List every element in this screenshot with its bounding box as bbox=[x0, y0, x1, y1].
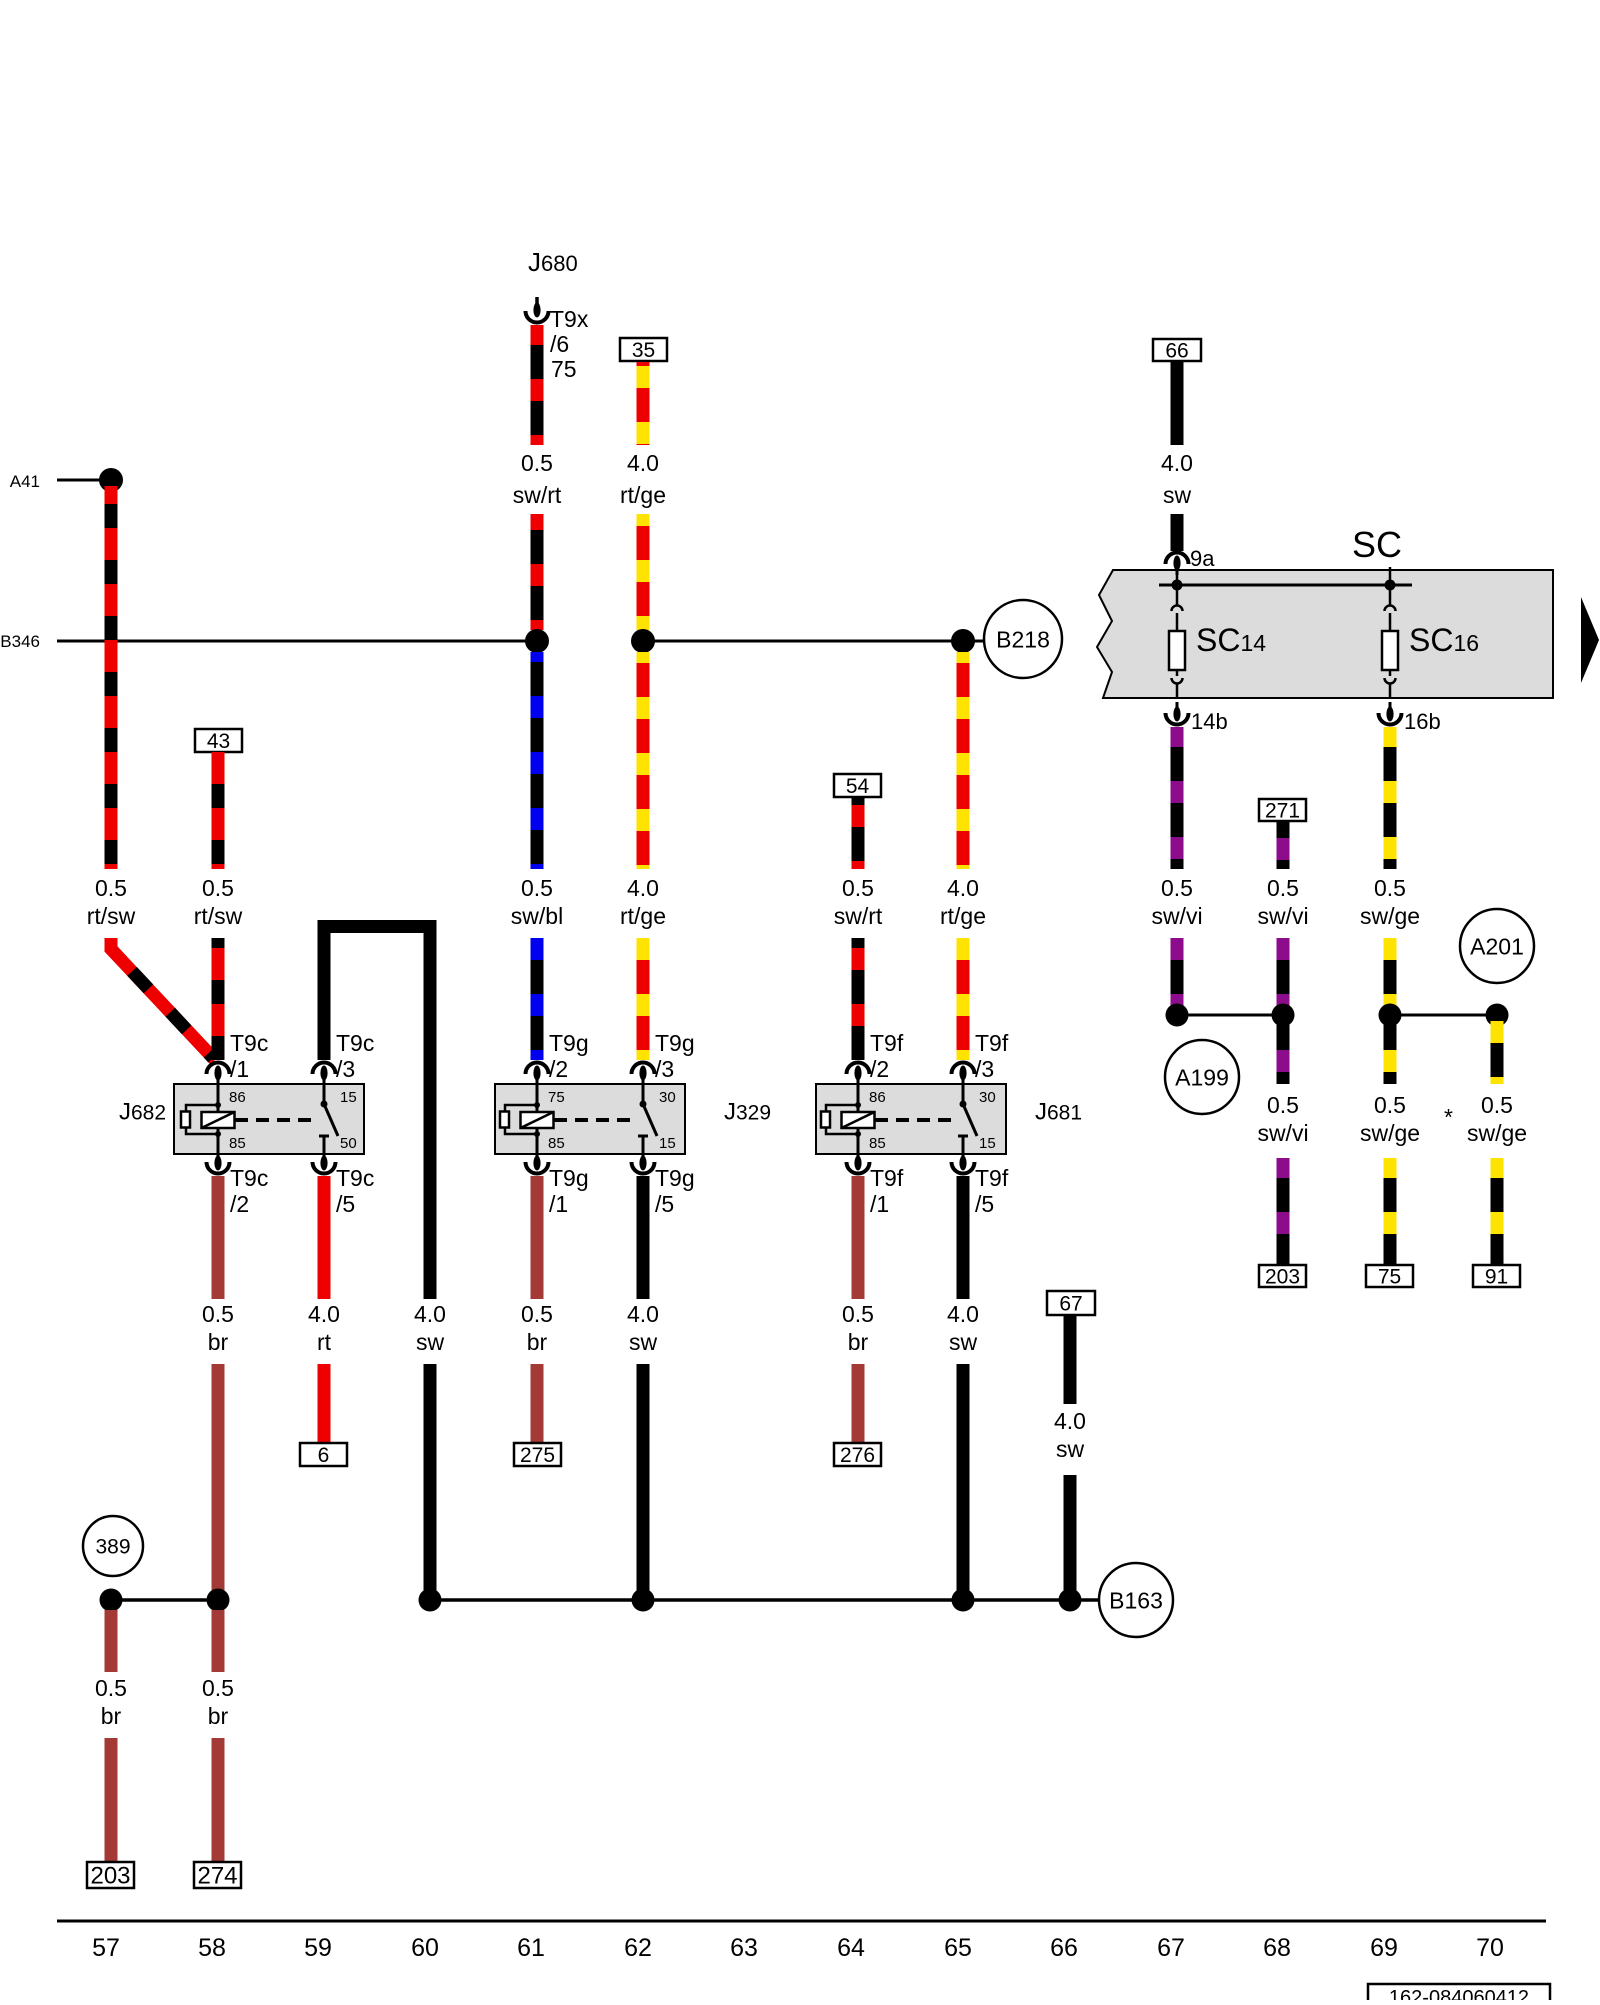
wire 0.5 br below junction58 bbox=[212, 1610, 225, 1672]
svg-text:203: 203 bbox=[1265, 1266, 1300, 1289]
connector T9g/5 bbox=[632, 1151, 695, 1217]
wire 0.5 br below junction57 bbox=[105, 1610, 118, 1672]
svg-text:0.5: 0.5 bbox=[1267, 875, 1299, 901]
ground circle B163 bbox=[1099, 1563, 1173, 1637]
svg-text:*: * bbox=[1444, 1104, 1453, 1130]
connector T9g/2 bbox=[526, 1030, 589, 1085]
label 0.5 sw/ge track69 bbox=[1360, 875, 1420, 929]
label 4.0 rt bbox=[308, 1301, 340, 1355]
svg-text:69: 69 bbox=[1370, 1934, 1398, 1962]
wire 4.0 sw track66 to ground bus bbox=[1064, 1475, 1077, 1600]
label 4.0 sw track60 bbox=[414, 1301, 446, 1355]
wire 0.5 br below T9c/2 bbox=[212, 1176, 225, 1299]
wire junction bus 67-68 bbox=[1177, 1014, 1283, 1017]
wire ground bus bbox=[430, 1598, 1099, 1602]
svg-text:/3: /3 bbox=[336, 1056, 355, 1082]
svg-text:30: 30 bbox=[659, 1089, 676, 1106]
junction track60 ground bbox=[419, 1589, 442, 1612]
svg-text:271: 271 bbox=[1265, 800, 1300, 823]
svg-text:50: 50 bbox=[340, 1135, 357, 1152]
svg-text:sw: sw bbox=[949, 1329, 978, 1355]
svg-text:T9f: T9f bbox=[870, 1165, 904, 1191]
wire 0.5 br below T9g/1 bbox=[531, 1176, 544, 1299]
terminal box 43 bbox=[195, 729, 242, 753]
terminal box 66 bbox=[1153, 339, 1201, 363]
svg-text:35: 35 bbox=[632, 339, 655, 362]
label 4.0 sw track66 bbox=[1054, 1408, 1086, 1462]
wire sw/ge to box 75 bbox=[1384, 1158, 1397, 1265]
svg-text:T9f: T9f bbox=[870, 1030, 904, 1056]
wire 0.5 sw/rt below 54 bbox=[852, 797, 865, 869]
svg-text:br: br bbox=[208, 1329, 229, 1355]
connector T9c/3 bbox=[313, 1030, 375, 1085]
svg-text:B346: B346 bbox=[0, 632, 40, 651]
node A41 bbox=[10, 468, 123, 492]
wire B218 horizontal bbox=[643, 640, 984, 643]
wire 0.5 br track58 to ground bus bbox=[212, 1364, 225, 1600]
SC bus junction 14 bbox=[1172, 580, 1183, 591]
svg-text:sw: sw bbox=[629, 1329, 658, 1355]
svg-text:sw: sw bbox=[1163, 482, 1192, 508]
svg-text:57: 57 bbox=[92, 1934, 120, 1962]
svg-text:/2: /2 bbox=[870, 1056, 889, 1082]
terminal box 35 bbox=[620, 338, 667, 362]
svg-text:67: 67 bbox=[1059, 1293, 1082, 1316]
svg-text:B218: B218 bbox=[996, 626, 1050, 652]
wire 4.0 sw below T9f/5 bbox=[957, 1176, 970, 1299]
svg-text:rt: rt bbox=[317, 1329, 332, 1355]
svg-text:sw: sw bbox=[1056, 1436, 1085, 1462]
svg-text:4.0: 4.0 bbox=[627, 875, 659, 901]
wire sw/rt to T9f/2 bbox=[852, 938, 865, 1060]
svg-text:sw/vi: sw/vi bbox=[1151, 903, 1202, 929]
svg-text:4.0: 4.0 bbox=[947, 875, 979, 901]
connector T9c/2 bbox=[207, 1151, 269, 1217]
svg-text:54: 54 bbox=[846, 775, 870, 798]
label 0.5 sw/bl bbox=[511, 875, 563, 929]
wire 0.5 br to box 274 bbox=[212, 1738, 225, 1862]
svg-text:rt/ge: rt/ge bbox=[620, 482, 666, 508]
connection circle A201 bbox=[1460, 909, 1534, 983]
svg-text:16b: 16b bbox=[1404, 709, 1441, 734]
svg-text:T9f: T9f bbox=[975, 1030, 1009, 1056]
wire 0.5 sw/vi below 271 bbox=[1277, 821, 1290, 869]
svg-text:85: 85 bbox=[869, 1135, 886, 1152]
wire 4.0 rt/ge below junction65 bbox=[957, 652, 970, 869]
terminal box 54 bbox=[834, 774, 881, 798]
svg-text:86: 86 bbox=[229, 1089, 246, 1106]
svg-text:4.0: 4.0 bbox=[1161, 450, 1193, 476]
svg-text:58: 58 bbox=[198, 1934, 226, 1962]
terminal box 271 bbox=[1259, 799, 1306, 823]
junction track57 ground bbox=[100, 1589, 123, 1612]
wire B346 horizontal bbox=[57, 640, 537, 643]
connector T9f/3 bbox=[952, 1030, 1009, 1085]
svg-text:0.5: 0.5 bbox=[95, 1675, 127, 1701]
drawing number box 162-084060412 bbox=[1368, 1984, 1550, 2005]
svg-text:68: 68 bbox=[1263, 1934, 1291, 1962]
junction track66 ground bbox=[1059, 1589, 1082, 1612]
svg-text:0.5: 0.5 bbox=[202, 875, 234, 901]
svg-text:B163: B163 bbox=[1109, 1587, 1163, 1613]
svg-text:rt/sw: rt/sw bbox=[194, 903, 243, 929]
svg-text:6: 6 bbox=[318, 1444, 330, 1467]
svg-text:T9g: T9g bbox=[655, 1165, 695, 1191]
junction track67 bbox=[1166, 1004, 1189, 1027]
svg-text:61: 61 bbox=[517, 1934, 545, 1962]
svg-text:0.5: 0.5 bbox=[1481, 1092, 1513, 1118]
svg-text:0.5: 0.5 bbox=[1267, 1092, 1299, 1118]
svg-text:A41: A41 bbox=[10, 472, 40, 491]
connector T9f/1 bbox=[847, 1151, 904, 1217]
svg-text:T9x: T9x bbox=[550, 306, 589, 332]
wire rt/sw to T9c/1 bbox=[212, 938, 225, 1060]
connector T9f/2 bbox=[847, 1030, 904, 1085]
svg-text:/1: /1 bbox=[230, 1056, 249, 1082]
svg-text:/6: /6 bbox=[550, 331, 569, 357]
connector 9a bbox=[1166, 546, 1216, 575]
track numbers 57-70 bbox=[92, 1934, 1504, 1962]
svg-text:rt/ge: rt/ge bbox=[940, 903, 986, 929]
SC internal bus bbox=[1159, 584, 1412, 587]
svg-text:75: 75 bbox=[1378, 1266, 1401, 1289]
wire 0.5 br to box 275 bbox=[531, 1364, 544, 1443]
terminal box 67 bbox=[1047, 1291, 1095, 1316]
svg-text:SC: SC bbox=[1352, 524, 1402, 565]
ground circle 389 bbox=[83, 1516, 143, 1576]
svg-text:70: 70 bbox=[1476, 1934, 1504, 1962]
svg-text:0.5: 0.5 bbox=[1374, 875, 1406, 901]
label 0.5 br bottom57 bbox=[95, 1675, 127, 1729]
wire 0.5 br to box 203 left bbox=[105, 1738, 118, 1862]
svg-text:0.5: 0.5 bbox=[521, 1301, 553, 1327]
node B346 bbox=[0, 632, 40, 651]
svg-text:T9g: T9g bbox=[655, 1030, 695, 1056]
svg-text:sw/ge: sw/ge bbox=[1467, 1120, 1527, 1146]
wire 4.0 sw below 67 bbox=[1064, 1315, 1077, 1404]
track scale rule bbox=[57, 1920, 1546, 1923]
svg-text:0.5: 0.5 bbox=[521, 875, 553, 901]
svg-text:T9c: T9c bbox=[336, 1165, 374, 1191]
wire sw/bl to T9g/2 bbox=[531, 938, 544, 1060]
svg-text:sw/ge: sw/ge bbox=[1360, 903, 1420, 929]
svg-text:59: 59 bbox=[304, 1934, 332, 1962]
svg-text:75: 75 bbox=[548, 1089, 565, 1106]
wire 4.0 sw below T9g/5 bbox=[637, 1176, 650, 1299]
wire 0.5 br to box 276 bbox=[852, 1364, 865, 1443]
label 0.5 rt/sw track57 bbox=[87, 875, 136, 929]
svg-text:15: 15 bbox=[979, 1135, 996, 1152]
junction track65 ground bbox=[952, 1589, 975, 1612]
label 0.5 sw/vi track68 bbox=[1257, 875, 1308, 929]
svg-text:0.5: 0.5 bbox=[842, 875, 874, 901]
label 0.5 sw/ge lower70 bbox=[1467, 1092, 1527, 1146]
svg-text:75: 75 bbox=[551, 356, 577, 382]
svg-text:rt/ge: rt/ge bbox=[620, 903, 666, 929]
svg-text:65: 65 bbox=[944, 1934, 972, 1962]
svg-text:0.5: 0.5 bbox=[202, 1301, 234, 1327]
svg-text:sw/rt: sw/rt bbox=[513, 482, 562, 508]
svg-text:66: 66 bbox=[1050, 1934, 1078, 1962]
relay J329 bbox=[495, 1084, 771, 1154]
terminal box 91 bbox=[1473, 1265, 1520, 1289]
wire 4.0 sw track65 to ground bus bbox=[957, 1364, 970, 1600]
svg-text:T9g: T9g bbox=[549, 1165, 589, 1191]
wire 4.0 sw below 66 bbox=[1171, 361, 1184, 445]
relay J682 bbox=[119, 1084, 364, 1154]
connector T9c/1 bbox=[207, 1030, 269, 1085]
wire 0.5 br below T9f/1 bbox=[852, 1176, 865, 1299]
wire sw/vi to junction bbox=[1171, 938, 1184, 1015]
connector T9g/3 bbox=[632, 1030, 695, 1085]
relay contact J680 label bbox=[528, 247, 578, 277]
svg-text:T9c: T9c bbox=[336, 1030, 374, 1056]
connector T9f/5 bbox=[952, 1151, 1009, 1217]
label 0.5 br track61 bbox=[521, 1301, 553, 1355]
SC bus junction 16 bbox=[1385, 580, 1396, 591]
svg-text:4.0: 4.0 bbox=[627, 1301, 659, 1327]
svg-text:0.5: 0.5 bbox=[521, 450, 553, 476]
label 0.5 sw/rt bbox=[513, 450, 562, 508]
fuse SC14 bbox=[1169, 567, 1266, 698]
label 0.5 sw/rt track64 bbox=[834, 875, 883, 929]
junction track68 bbox=[1272, 1004, 1295, 1027]
svg-text:63: 63 bbox=[730, 1934, 758, 1962]
svg-text:276: 276 bbox=[840, 1444, 875, 1467]
svg-text:0.5: 0.5 bbox=[1161, 875, 1193, 901]
svg-text:sw/vi: sw/vi bbox=[1257, 1120, 1308, 1146]
wire 4.0 rt/ge below junction62 bbox=[637, 652, 650, 869]
svg-text:275: 275 bbox=[520, 1444, 555, 1467]
svg-text:389: 389 bbox=[95, 1536, 130, 1559]
terminal box 276 bbox=[834, 1443, 881, 1467]
svg-text:sw/bl: sw/bl bbox=[511, 903, 563, 929]
wire 4.0 sw loop T9c/3 up and over to track60 bbox=[324, 927, 430, 1300]
svg-text:J329: J329 bbox=[724, 1099, 771, 1126]
svg-text:62: 62 bbox=[624, 1934, 652, 1962]
terminal box 203 right bbox=[1259, 1265, 1306, 1289]
svg-text:/5: /5 bbox=[975, 1191, 994, 1217]
label 4.0 rt/ge track65 bbox=[940, 875, 986, 929]
terminal box 75 bbox=[1366, 1265, 1413, 1289]
wire 4.0 rt/ge below 35 bbox=[637, 362, 650, 445]
svg-text:A201: A201 bbox=[1470, 933, 1524, 959]
fuse panel SC box bbox=[1097, 524, 1553, 698]
svg-text:/5: /5 bbox=[336, 1191, 355, 1217]
terminal box 203 left bbox=[87, 1862, 134, 1890]
svg-text:203: 203 bbox=[90, 1863, 130, 1890]
wire bottom-left bus bbox=[111, 1598, 218, 1602]
svg-text:T9g: T9g bbox=[549, 1030, 589, 1056]
svg-text:85: 85 bbox=[229, 1135, 246, 1152]
connection circle B218 bbox=[984, 600, 1062, 678]
svg-text:T9c: T9c bbox=[230, 1030, 268, 1056]
label 4.0 rt/ge top bbox=[620, 450, 666, 508]
svg-text:67: 67 bbox=[1157, 1934, 1185, 1962]
wire 0.5 sw/vi below 14b bbox=[1171, 727, 1184, 869]
wire 0.5 rt/sw below 43 bbox=[212, 752, 225, 869]
junction track69 bbox=[1379, 1004, 1402, 1027]
svg-text:4.0: 4.0 bbox=[627, 450, 659, 476]
junction track58 ground bbox=[207, 1589, 230, 1612]
svg-text:/3: /3 bbox=[655, 1056, 674, 1082]
connector T9g/1 bbox=[526, 1151, 589, 1217]
terminal box 6 bbox=[300, 1443, 347, 1467]
svg-text:66: 66 bbox=[1165, 340, 1188, 363]
svg-text:9a: 9a bbox=[1190, 546, 1215, 571]
wire 0.5 sw/ge below 16b bbox=[1384, 727, 1397, 869]
SC continuation arrow bbox=[1581, 597, 1599, 683]
svg-text:br: br bbox=[848, 1329, 869, 1355]
label 0.5 rt/sw track58 bbox=[194, 875, 243, 929]
wire sw/rt to node B346 bbox=[531, 514, 544, 630]
svg-text:/3: /3 bbox=[975, 1056, 994, 1082]
svg-text:T9f: T9f bbox=[975, 1165, 1009, 1191]
svg-text:30: 30 bbox=[979, 1089, 996, 1106]
fuse SC16 bbox=[1382, 567, 1479, 698]
terminal box 274 bbox=[194, 1862, 241, 1890]
svg-text:43: 43 bbox=[207, 730, 230, 753]
connector T9x pin 75 of J680 bbox=[526, 297, 589, 382]
wire sw/ge to box 91 bbox=[1491, 1158, 1504, 1265]
wire 0.5 sw/bl below junction bbox=[531, 652, 544, 869]
wire rt/ge to node B218 bbox=[637, 514, 650, 630]
svg-text:4.0: 4.0 bbox=[414, 1301, 446, 1327]
svg-text:64: 64 bbox=[837, 1934, 865, 1962]
svg-text:A199: A199 bbox=[1175, 1064, 1229, 1090]
wire rt/ge to T9g/3 bbox=[637, 938, 650, 1060]
junction track61/B346 bbox=[525, 629, 549, 653]
svg-text:sw/ge: sw/ge bbox=[1360, 1120, 1420, 1146]
relay J681 bbox=[816, 1084, 1082, 1154]
svg-text:T9c: T9c bbox=[230, 1165, 268, 1191]
svg-text:4.0: 4.0 bbox=[1054, 1408, 1086, 1434]
wire 0.5 sw/ge below junction70 bbox=[1491, 1015, 1504, 1084]
terminal box 275 bbox=[514, 1443, 561, 1467]
wire 4.0 sw track62 to ground bus bbox=[637, 1364, 650, 1600]
svg-text:91: 91 bbox=[1485, 1266, 1508, 1289]
svg-text:/1: /1 bbox=[549, 1191, 568, 1217]
label 0.5 sw/ge lower69 bbox=[1360, 1092, 1420, 1146]
connection circle A199 bbox=[1165, 1040, 1239, 1114]
junction track62 bbox=[631, 629, 655, 653]
wire junction bus 69-70 bbox=[1390, 1014, 1497, 1017]
svg-text:14b: 14b bbox=[1191, 709, 1228, 734]
label 0.5 br track64 bbox=[842, 1301, 874, 1355]
svg-text:/1: /1 bbox=[870, 1191, 889, 1217]
wire 4.0 sw track60 to ground bus bbox=[424, 1364, 437, 1600]
svg-text:rt/sw: rt/sw bbox=[87, 903, 136, 929]
svg-text:sw/vi: sw/vi bbox=[1257, 903, 1308, 929]
wire 4.0 rt to box 6 bbox=[318, 1364, 331, 1443]
svg-text:0.5: 0.5 bbox=[1374, 1092, 1406, 1118]
footnote asterisk bbox=[1444, 1104, 1453, 1130]
svg-text:J682: J682 bbox=[119, 1099, 166, 1126]
wire 0.5 rt/sw from A41 bbox=[105, 486, 118, 869]
label 4.0 sw track65 bbox=[947, 1301, 979, 1355]
label 0.5 sw/vi track67 bbox=[1151, 875, 1202, 929]
svg-text:0.5: 0.5 bbox=[202, 1675, 234, 1701]
connector T9c/5 bbox=[313, 1151, 375, 1217]
svg-text:4.0: 4.0 bbox=[308, 1301, 340, 1327]
wire rt/sw diagonal to T9c/1 bbox=[111, 938, 215, 1060]
svg-text:60: 60 bbox=[411, 1934, 439, 1962]
connector 14b bbox=[1166, 702, 1228, 734]
svg-text:/2: /2 bbox=[549, 1056, 568, 1082]
junction track65 bbox=[951, 629, 975, 653]
svg-text:0.5: 0.5 bbox=[842, 1301, 874, 1327]
junction track70 bbox=[1486, 1004, 1509, 1027]
wire 4.0 sw to SC 9a bbox=[1171, 514, 1184, 551]
svg-text:162-084060412: 162-084060412 bbox=[1389, 1987, 1529, 2000]
wire rt/ge to T9f/3 bbox=[957, 938, 970, 1060]
svg-text:J680: J680 bbox=[528, 247, 578, 277]
label 4.0 sw top bbox=[1161, 450, 1193, 508]
svg-text:br: br bbox=[101, 1703, 122, 1729]
label 4.0 sw track62 bbox=[627, 1301, 659, 1355]
svg-text:4.0: 4.0 bbox=[947, 1301, 979, 1327]
wire sw/vi to box 203 right bbox=[1277, 1158, 1290, 1265]
wire 0.5 sw/rt from J680 bbox=[531, 325, 544, 445]
svg-text:274: 274 bbox=[197, 1863, 237, 1890]
svg-text:br: br bbox=[208, 1703, 229, 1729]
wire sw/vi through junction68 bbox=[1277, 938, 1290, 1084]
svg-text:85: 85 bbox=[548, 1135, 565, 1152]
svg-text:sw/rt: sw/rt bbox=[834, 903, 883, 929]
wire sw/ge through junction69 bbox=[1384, 938, 1397, 1084]
svg-text:J681: J681 bbox=[1035, 1099, 1082, 1126]
svg-text:86: 86 bbox=[869, 1089, 886, 1106]
svg-text:15: 15 bbox=[659, 1135, 676, 1152]
svg-text:sw: sw bbox=[416, 1329, 445, 1355]
svg-text:/2: /2 bbox=[230, 1191, 249, 1217]
label 0.5 sw/vi lower bbox=[1257, 1092, 1308, 1146]
connector 16b bbox=[1379, 702, 1441, 734]
label 4.0 rt/ge row A bbox=[620, 875, 666, 929]
wire 4.0 rt below T9c/5 bbox=[318, 1176, 331, 1299]
label 0.5 br bottom58 bbox=[202, 1675, 234, 1729]
svg-text:br: br bbox=[527, 1329, 548, 1355]
svg-text:/5: /5 bbox=[655, 1191, 674, 1217]
junction track62 ground bbox=[632, 1589, 655, 1612]
svg-text:15: 15 bbox=[340, 1089, 357, 1106]
label 0.5 br track58 bbox=[202, 1301, 234, 1355]
svg-text:0.5: 0.5 bbox=[95, 875, 127, 901]
